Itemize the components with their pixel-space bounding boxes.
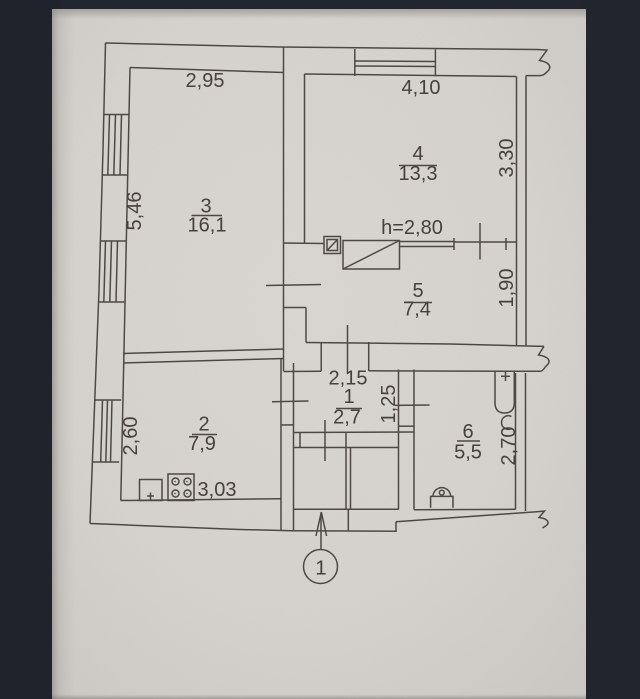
room 1 fraction bar [336,408,362,410]
door tick room5/room1 [347,325,349,374]
kitchen sink [140,480,163,501]
svg-text:6: 6 [462,421,473,443]
porch inner divider [345,448,347,510]
room5 floor line [306,343,544,347]
wall break squiggle mid-right [539,346,550,371]
door tick room1/porch [324,420,326,461]
jamb ticks [453,238,455,250]
opening line to right wall [454,241,517,243]
wall room3/room4 divider right face [304,74,306,244]
rooms4/5 divider: left stub [284,242,324,245]
inner left wall [121,68,130,501]
stove [168,474,194,501]
svg-text:4,10: 4,10 [402,77,441,99]
svg-text:4: 4 [412,143,423,165]
flue square with X [324,237,341,254]
door tick rooms1/2 [272,400,309,403]
room 5 fraction bar [404,302,432,304]
window W1 left wall [102,115,130,176]
door tick rooms4/5 [479,223,481,260]
tap cross [505,372,507,382]
outer wall: top [106,43,538,50]
outer wall: left [90,43,106,524]
room4 inner top wall [305,74,517,77]
svg-text:7,9: 7,9 [188,433,216,455]
bathtub [495,372,514,414]
entrance circle [304,550,338,584]
door tick room3/room5 [266,285,321,286]
porch band vertical [347,509,349,531]
svg-text:2,7: 2,7 [333,407,361,429]
svg-text:16,1: 16,1 [188,215,227,237]
right wall outer line [525,76,527,347]
wall rung [399,425,415,427]
rooms3/2 divider wall [123,349,284,354]
wall room2/room1+porch right face [293,363,295,531]
outer wall: bottom right of porch [396,512,539,522]
room 4 fraction bar [399,165,437,167]
room6 floor [414,508,516,511]
wall room3/room4 divider left face [283,47,285,371]
stove block with diagonal [343,241,400,270]
room2 floor line [121,499,281,501]
window W3 left wall (room 2) [93,400,122,462]
svg-text:1,25: 1,25 [378,385,400,424]
band bottom left segment [284,370,322,372]
room 6 fraction bar [457,440,480,442]
bath drain C [501,416,511,430]
porch outer bottom [292,522,396,532]
outer wall: bottom [90,524,292,531]
room6 right wall [515,373,517,510]
toilet [433,488,451,497]
svg-text:1,90: 1,90 [496,269,518,308]
door tick rooms1/6 [395,404,430,406]
room 3 inner top wall [130,68,284,73]
svg-text:2,70: 2,70 [498,427,520,466]
room 2 fraction bar [192,434,217,436]
svg-text:h=2,80: h=2,80 [381,217,443,239]
svg-text:3,03: 3,03 [198,479,237,501]
wall break squiggle bottom-right [539,511,549,528]
band door jambs [320,343,322,372]
right wall inner line [516,77,518,346]
svg-text:1: 1 [315,557,326,580]
threshold band room1 [294,431,415,434]
porch floor [294,508,399,510]
entrance arrow [320,514,322,550]
svg-text:5,5: 5,5 [454,442,482,464]
band bottom right segment [369,370,541,373]
top wall window [355,49,436,76]
svg-text:5,46: 5,46 [124,192,146,231]
wall room2/room1+porch left face [280,359,282,531]
svg-text:13,3: 13,3 [399,163,438,185]
wall room1+porch/room6 left face [398,370,400,510]
svg-text:2,60: 2,60 [120,417,142,456]
svg-text:2,95: 2,95 [186,70,225,92]
svg-text:1: 1 [343,386,354,408]
wall room1+porch/room6 right face [413,370,415,510]
rooms4/5 divider double wall [400,241,455,243]
svg-text:3,30: 3,30 [496,139,518,178]
column jog [284,307,307,309]
wall break squiggle top-right [526,50,550,76]
wall rung [281,424,294,426]
room 3 fraction bar [192,215,223,217]
window W2 left wall [98,241,126,302]
svg-text:7,4: 7,4 [403,299,431,321]
